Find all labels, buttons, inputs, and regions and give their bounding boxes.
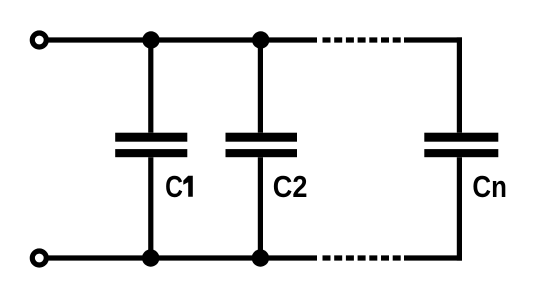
top terminal (open circle) [32,33,46,47]
wire top rail solid left [48,37,317,42]
wire C2 upper lead [258,40,263,133]
wire C1 lower lead [148,157,153,258]
node junction bottom C2 [252,249,269,266]
node junction bottom C1 [142,249,159,266]
wire right vertical bottom [457,157,462,260]
node junction top C1 [142,31,159,48]
wire bottom rail dashed [323,255,401,260]
wire C2 lower lead [258,157,263,258]
wire C1 upper lead [148,40,153,133]
wire right vertical top [457,37,462,132]
wire bottom rail solid right [404,255,462,260]
bottom terminal (open circle) [32,251,46,265]
wire bottom rail solid left [48,255,317,260]
svg-text:C: C [165,169,183,203]
wire top rail dashed [323,37,401,42]
capacitor Cn (plates) [424,133,498,158]
capacitor C2 (plates) [226,133,298,158]
svg-text:C2: C2 [273,170,308,204]
wire top rail solid right [404,37,462,42]
node junction top C2 [252,31,269,48]
capacitor C1 (plates) [115,133,187,158]
svg-text:Cn: Cn [472,170,506,205]
value label C1 [165,169,193,203]
